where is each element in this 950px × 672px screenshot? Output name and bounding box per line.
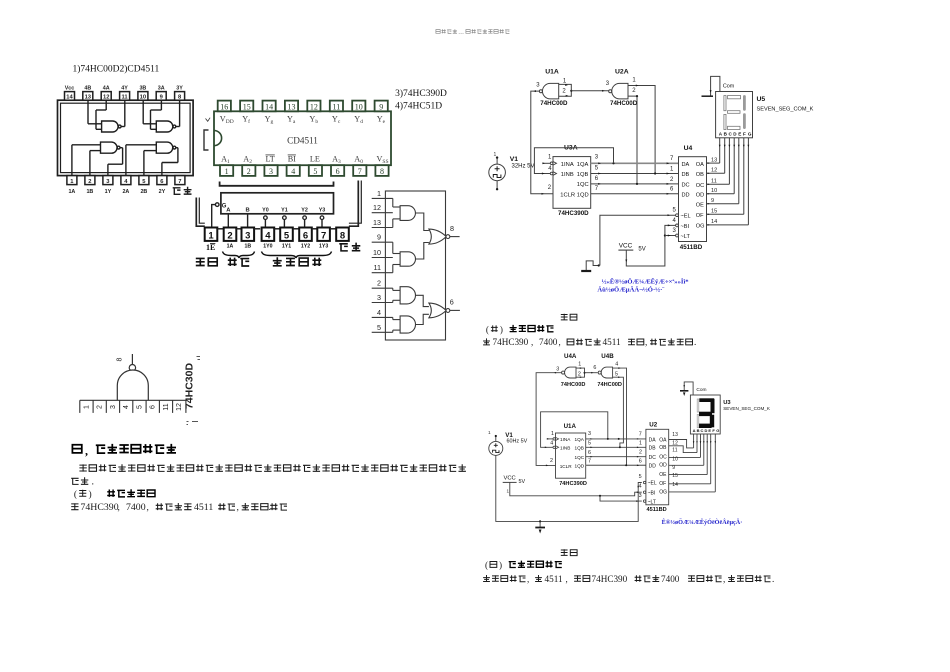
- svg-text:(: (: [485, 560, 488, 570]
- wire U2 OA pin13 to display A: [669, 440, 694, 448]
- decoder U2 4511BD figure2: [646, 429, 669, 505]
- wire U4B output to U4A inputs: [585, 372, 598, 374]
- svg-text:12: 12: [103, 95, 109, 101]
- wire U2 OB pin12 to display B: [669, 446, 697, 453]
- svg-text:1: 1: [563, 78, 567, 84]
- svg-text:12: 12: [672, 440, 678, 446]
- svg-text:U2A: U2A: [615, 68, 629, 75]
- U4 control pin ~BI bubble: [676, 224, 679, 227]
- wire U4 OE pin 9 to display: [707, 203, 739, 205]
- segment C (lit) figure2: [710, 415, 714, 428]
- pin 13 (4B) of 74HC00: [83, 92, 93, 101]
- pin 9 (3A) of 74HC00: [156, 92, 166, 101]
- svg-text:,: ,: [85, 444, 88, 458]
- clock source V1 (60Hz 5V) figure2: [489, 441, 503, 455]
- svg-text:3: 3: [588, 431, 591, 437]
- svg-text:14: 14: [66, 95, 73, 101]
- svg-text:15: 15: [672, 473, 678, 479]
- svg-text:1B: 1B: [86, 189, 93, 195]
- CD4511 pin 10 (Yd): [352, 101, 365, 112]
- svg-text:60Hz 5V: 60Hz 5V: [507, 439, 528, 445]
- svg-text:5: 5: [377, 323, 381, 332]
- svg-text:,: ,: [531, 337, 533, 347]
- wire U4 OB pin 12 to display: [707, 172, 725, 174]
- svg-text:E: E: [708, 428, 711, 433]
- svg-text:C: C: [701, 428, 704, 433]
- svg-text:74HC390: 74HC390: [81, 502, 119, 513]
- wire 1QD to U4 DD: [591, 193, 679, 195]
- svg-text:11: 11: [122, 95, 129, 101]
- wire 1QC to U4 DC: [591, 183, 679, 185]
- pin 10 (3B) of 74HC00: [138, 92, 148, 101]
- svg-text:5: 5: [588, 441, 591, 447]
- U1A pin 1 (1INA) figure2: [553, 438, 555, 440]
- body line 由74HC390、7400、数码管与4511 组成，电路如图一。: [71, 503, 78, 510]
- segment B (lit): [743, 95, 746, 111]
- NAND gate U1A 74HC00D: [542, 83, 558, 99]
- svg-text:Y0: Y0: [262, 208, 269, 214]
- wire U2 OF pin15 to display F: [669, 483, 711, 485]
- svg-text:3: 3: [673, 228, 677, 234]
- svg-text:74HC390D: 74HC390D: [558, 210, 589, 217]
- svg-text:2B: 2B: [140, 189, 147, 195]
- U4 control pin ~EL bubble: [676, 214, 679, 217]
- svg-text:5: 5: [284, 231, 290, 242]
- svg-text:3Y: 3Y: [176, 85, 183, 91]
- CD4511 pin 2 (A2): [242, 165, 255, 176]
- svg-text:~BI: ~BI: [648, 490, 656, 496]
- U4B pin5 wire to 1QB figure2: [613, 377, 624, 447]
- svg-text:3: 3: [639, 493, 642, 499]
- svg-text:2: 2: [97, 405, 104, 409]
- svg-text:1: 1: [639, 440, 642, 446]
- svg-text:(: (: [74, 489, 77, 500]
- svg-text:15: 15: [711, 209, 717, 215]
- CD4511 pin 1 (A1): [220, 165, 233, 176]
- pin 7 (GND) of 74HC00: [175, 176, 185, 185]
- svg-text:1INA: 1INA: [560, 437, 571, 442]
- demux pin 2: [224, 228, 237, 241]
- body line 由 74HC390、7400、数码管与 4511 组成，电路如图二。: [483, 338, 490, 345]
- svg-text:2: 2: [247, 167, 251, 176]
- svg-text:Vcc: Vcc: [65, 85, 75, 91]
- pin 5 (2B) of 74HC00: [139, 176, 149, 185]
- 74HC51 input pin 5: [372, 331, 393, 333]
- svg-text:1QD: 1QD: [577, 193, 589, 199]
- segment E figure2: [697, 415, 699, 428]
- svg-text:5: 5: [313, 167, 317, 176]
- pin 12 (4A) of 74HC00: [101, 92, 111, 101]
- CD4511 pin 14 (Yg): [263, 101, 276, 112]
- CD4511 pin 6 (A3): [331, 165, 344, 176]
- segment A: [728, 96, 741, 99]
- svg-text:DA: DA: [682, 162, 690, 168]
- display Com wire to ground figure2: [684, 382, 693, 395]
- svg-text:DC: DC: [649, 455, 657, 461]
- svg-text:OD: OD: [659, 463, 667, 469]
- svg-text:1: 1: [83, 405, 90, 409]
- U4A input stubs tied: [576, 368, 585, 377]
- svg-text:4511BD: 4511BD: [680, 244, 703, 251]
- segment D: [728, 126, 741, 129]
- U3A pin 4 (1INB): [550, 172, 553, 175]
- wire U2 OG pin14 to display G: [669, 491, 716, 493]
- 74HC51 OR gate output 8: [429, 229, 446, 244]
- 74HC51 logic diagram box: [385, 191, 445, 340]
- svg-text:BI: BI: [288, 155, 296, 164]
- svg-text:1CLR: 1CLR: [560, 464, 573, 469]
- svg-text:4A: 4A: [103, 85, 110, 91]
- svg-text:9: 9: [672, 465, 675, 471]
- pin 8 (3Y) of 74HC00: [175, 92, 185, 101]
- 74HC51 input pin 13: [372, 227, 393, 229]
- segment F: [724, 96, 726, 111]
- wire VCC to ~BI ~LT figure2: [510, 482, 642, 495]
- svg-text:7: 7: [321, 231, 326, 242]
- svg-text:3: 3: [245, 231, 250, 242]
- svg-text:4: 4: [265, 231, 271, 242]
- svg-text:7: 7: [358, 167, 362, 176]
- svg-text:8: 8: [380, 167, 384, 176]
- svg-text:1INB: 1INB: [560, 446, 570, 451]
- caption 图二: [561, 549, 568, 556]
- svg-text:1Y2: 1Y2: [301, 244, 310, 250]
- svg-text:8: 8: [117, 358, 124, 362]
- svg-text:OB: OB: [696, 172, 704, 178]
- svg-text:): ): [89, 489, 92, 500]
- svg-text:~BI: ~BI: [681, 224, 690, 230]
- svg-text:U1A: U1A: [564, 423, 577, 430]
- demux enable input G with bubble: [215, 203, 219, 207]
- svg-text:DB: DB: [682, 172, 690, 178]
- svg-text:6: 6: [303, 231, 308, 242]
- svg-text:1QC: 1QC: [577, 182, 589, 188]
- segment D (lit) figure2: [699, 424, 712, 428]
- svg-text:5: 5: [639, 474, 642, 480]
- svg-text:DA: DA: [649, 437, 657, 443]
- svg-text:VCC: VCC: [619, 242, 633, 249]
- svg-text:3: 3: [595, 155, 599, 161]
- svg-text:SEVEN_SEG_COM_K: SEVEN_SEG_COM_K: [723, 406, 771, 411]
- 74HC51 input pin 11: [372, 272, 393, 274]
- svg-text:1)74HC00D2)CD4511: 1)74HC00D2)CD4511: [73, 64, 160, 75]
- svg-text:9: 9: [379, 102, 383, 111]
- 74HC51 input pin 10: [372, 257, 393, 259]
- svg-text:Y1: Y1: [281, 208, 288, 214]
- svg-text:3: 3: [110, 405, 117, 409]
- svg-text:4B: 4B: [84, 85, 91, 91]
- CD4511 pin 11 (Yc): [330, 101, 343, 112]
- svg-text:10: 10: [140, 95, 146, 101]
- svg-text:74HC00D: 74HC00D: [561, 382, 586, 388]
- label 接地 for pin 8: [339, 244, 348, 251]
- gate 2 (NAND, pins 4,5 -> 6) inside 74HC00: [125, 145, 127, 176]
- NAND gate U2A 74HC00D: [612, 83, 628, 99]
- svg-text:1B: 1B: [244, 244, 251, 250]
- svg-text:7: 7: [588, 459, 591, 465]
- pin 4 (2A) of 74HC00: [121, 176, 131, 185]
- svg-text:,: ,: [237, 502, 239, 513]
- svg-text:,: ,: [147, 503, 149, 513]
- svg-text:12: 12: [310, 102, 318, 111]
- svg-text:,: ,: [566, 574, 568, 584]
- stray scan mark bracket: [204, 130, 209, 150]
- CD4511 notch: [214, 131, 222, 146]
- svg-text:SEVEN_SEG_COM_K: SEVEN_SEG_COM_K: [757, 107, 814, 113]
- 74HC30 pin row: [80, 399, 186, 401]
- svg-text:G: G: [716, 428, 719, 433]
- svg-text:A: A: [693, 428, 696, 433]
- ground symbol: [581, 270, 591, 272]
- svg-text:OF: OF: [696, 213, 704, 219]
- svg-text:1: 1: [208, 231, 214, 242]
- svg-text:4)74HC51D: 4)74HC51D: [395, 101, 442, 112]
- wire U2 OC pin11 to display C: [669, 456, 701, 458]
- svg-text:G: G: [748, 132, 752, 137]
- gate 3 (NAND, pins 10,9 -> 8) inside 74HC00: [142, 100, 144, 124]
- wire U4 OC pin 11 to display: [707, 183, 730, 185]
- svg-text:.: .: [694, 337, 696, 347]
- svg-text:3: 3: [536, 83, 540, 89]
- svg-text:U4B: U4B: [601, 353, 614, 360]
- CD4511 pin 5 (LE): [309, 165, 322, 176]
- scan dashes near 74HC30: [197, 357, 201, 360]
- feedback loop 1QA to 1INB: [534, 148, 613, 174]
- svg-text:1: 1: [507, 489, 510, 494]
- wire U2 OE pin9 to display E: [669, 474, 708, 476]
- demux DIP outer outline left: [196, 198, 205, 227]
- svg-text:10: 10: [373, 248, 381, 257]
- svg-text:5V: 5V: [519, 479, 526, 485]
- svg-text:~LT: ~LT: [648, 499, 656, 505]
- svg-text:6: 6: [150, 405, 157, 409]
- svg-text:4: 4: [550, 441, 553, 447]
- CD4511 pin 7 (A0): [353, 165, 366, 176]
- gate 1 (NAND, pins 1,2 -> 3) inside 74HC00: [71, 145, 73, 176]
- svg-text:1: 1: [632, 77, 636, 83]
- svg-text:6: 6: [336, 167, 340, 176]
- svg-text:1: 1: [551, 431, 554, 437]
- segment F figure2: [697, 399, 699, 412]
- segment B (lit) figure2: [711, 399, 715, 413]
- svg-text:OC: OC: [659, 455, 667, 461]
- CD4511 pin 16 (VDD): [218, 101, 231, 112]
- svg-text:7400: 7400: [539, 337, 558, 347]
- svg-text:11: 11: [333, 102, 341, 111]
- U4 control pin ~LT bubble: [676, 234, 679, 237]
- feedback loop 1QA to 1INB figure2: [541, 412, 608, 448]
- svg-text:4511: 4511: [603, 337, 621, 347]
- counter U1A 74HC390D figure2: [556, 433, 586, 478]
- svg-text:7: 7: [595, 186, 599, 192]
- wire 1QA to U2 DA figure2: [586, 438, 646, 440]
- svg-text:7: 7: [178, 179, 181, 185]
- wire VCC to ~BI and ~LT: [626, 225, 675, 266]
- svg-text:5V: 5V: [638, 246, 645, 252]
- svg-text:74HC390: 74HC390: [592, 574, 628, 584]
- svg-text:9: 9: [711, 198, 714, 204]
- label 选择: [228, 258, 237, 266]
- svg-text:6: 6: [450, 298, 454, 307]
- clock source V1 (32Hz 5V): [489, 164, 506, 181]
- svg-text:14: 14: [711, 219, 717, 225]
- 74HC51 input pin 2: [372, 287, 393, 289]
- segment E: [724, 114, 726, 129]
- svg-text:.: .: [269, 502, 271, 513]
- wire U4 OA pin 13 to display: [707, 162, 720, 164]
- svg-text:4: 4: [377, 308, 381, 317]
- seven segment display U3 SEVEN_SEG_COM_K figure2: [690, 395, 720, 434]
- svg-text:74HC00D: 74HC00D: [597, 382, 622, 388]
- demux pin 3: [242, 228, 255, 241]
- paragraph line 1 数字钟从原理上讲...: [79, 464, 86, 471]
- svg-text:DD: DD: [649, 464, 657, 470]
- svg-text:OG: OG: [696, 224, 705, 230]
- svg-text:2: 2: [88, 179, 91, 185]
- svg-text:15: 15: [243, 102, 251, 111]
- svg-text:3A: 3A: [158, 85, 165, 91]
- seven segment display U5 SEVEN_SEG_COM_K: [716, 92, 753, 138]
- svg-text:1: 1: [225, 167, 229, 176]
- wire U4A output to 1CLR figure2: [536, 373, 562, 466]
- svg-text:9: 9: [377, 233, 381, 242]
- pin 1 (1A) of 74HC00: [67, 176, 77, 185]
- svg-text:OG: OG: [659, 490, 667, 496]
- pin 3 (1Y) of 74HC00: [103, 176, 113, 185]
- svg-text:5: 5: [595, 166, 599, 172]
- U2 control pin ~LT bubble figure2: [643, 500, 645, 502]
- svg-text:1Y0: 1Y0: [263, 244, 272, 250]
- svg-text:2Y: 2Y: [159, 189, 166, 195]
- svg-text:): ): [499, 560, 502, 570]
- wire U1A output to 1CLR: [531, 91, 553, 194]
- counter U3A 74HC390D: [553, 157, 591, 209]
- caption 图一: [561, 314, 568, 321]
- svg-text:1QA: 1QA: [577, 162, 589, 168]
- svg-text:11: 11: [672, 448, 677, 454]
- svg-text:2: 2: [670, 177, 674, 183]
- U1A pin 4 (1INB) figure2: [553, 446, 555, 448]
- svg-text:3: 3: [606, 81, 610, 87]
- svg-text:2: 2: [639, 450, 642, 456]
- svg-text:13: 13: [85, 95, 92, 101]
- svg-text:10: 10: [711, 188, 717, 194]
- svg-text:OD: OD: [696, 193, 704, 199]
- wire U4 OD pin 10 to display: [707, 193, 735, 195]
- svg-text:U4A: U4A: [564, 353, 577, 360]
- svg-text:1INB: 1INB: [561, 172, 574, 178]
- svg-text:OB: OB: [659, 445, 667, 451]
- ground symbol figure2: [539, 520, 541, 522]
- CD4511 pin 9 (Ye): [375, 101, 388, 112]
- svg-text:2: 2: [632, 88, 636, 94]
- demux pin 7: [317, 228, 330, 241]
- svg-text:5: 5: [673, 208, 677, 214]
- svg-text:7: 7: [639, 431, 642, 437]
- svg-text:11: 11: [163, 403, 170, 410]
- svg-text:OE: OE: [659, 472, 667, 478]
- 74HC51 input pin 12: [372, 212, 393, 214]
- svg-text:½«Ê®½øÖÆ¼ÆÊýÆ÷×ª»»Ìì*: ½«Ê®½øÖÆ¼ÆÊýÆ÷×ª»»Ìì*: [602, 278, 690, 286]
- U3A pin 1 (1INA): [550, 162, 553, 165]
- svg-text:.: .: [92, 477, 95, 488]
- svg-text:1: 1: [670, 166, 674, 172]
- svg-text:VCC: VCC: [504, 475, 516, 481]
- svg-text:4: 4: [291, 167, 295, 176]
- segment C (lit): [743, 113, 746, 129]
- 74HC30 NAND bubble: [129, 365, 135, 371]
- svg-text:4511: 4511: [194, 502, 213, 513]
- wire ground rail to ~EL figure2: [637, 485, 639, 487]
- svg-text:OC: OC: [696, 183, 704, 189]
- svg-text:1Y3: 1Y3: [319, 244, 328, 250]
- svg-text:Áù½øÖÆµÄÁ¬½Ó·½·¨: Áù½øÖÆµÄÁ¬½Ó·½·¨: [597, 285, 665, 293]
- svg-text:7400: 7400: [126, 502, 146, 513]
- svg-text:1INA: 1INA: [561, 162, 574, 168]
- svg-text:U5: U5: [757, 96, 766, 103]
- svg-text:.: .: [772, 574, 774, 584]
- segment A (lit) figure2: [699, 398, 714, 402]
- NAND gate U4A 74HC00D figure2: [565, 367, 576, 378]
- svg-text:1QB: 1QB: [577, 172, 589, 178]
- svg-text:OF: OF: [659, 481, 666, 487]
- demux DIP outer outline right: [349, 181, 358, 227]
- svg-text:E: E: [738, 132, 741, 137]
- svg-text:OA: OA: [659, 437, 667, 443]
- svg-text:2A: 2A: [122, 189, 129, 195]
- V1 to ground rail wire: [496, 455, 642, 521]
- svg-text:): ): [500, 324, 503, 334]
- svg-text:B: B: [697, 428, 700, 433]
- svg-text:2: 2: [578, 371, 581, 377]
- 74HC51 input pin 4: [372, 316, 393, 318]
- svg-text:13: 13: [288, 102, 296, 111]
- CD4511 pin 3 (LT): [264, 165, 277, 176]
- svg-text:1CLR: 1CLR: [560, 193, 575, 199]
- svg-text:,: ,: [723, 574, 725, 584]
- svg-text:7400: 7400: [661, 574, 680, 584]
- pin 6 (2Y) of 74HC00: [157, 176, 167, 185]
- svg-text:16: 16: [220, 102, 228, 111]
- wire 1QC to U2 DC figure2: [586, 456, 646, 458]
- svg-text:1QA: 1QA: [575, 437, 585, 442]
- svg-text:6: 6: [593, 365, 596, 371]
- IC package CD4511 body: [214, 111, 391, 165]
- svg-text:V1: V1: [510, 156, 519, 163]
- wire 1QB to U4 DB: [591, 173, 679, 175]
- svg-text:4: 4: [673, 218, 677, 224]
- wire 1QB to U2 DB figure2: [586, 446, 646, 448]
- svg-text:CD4511: CD4511: [287, 136, 318, 146]
- svg-text:1: 1: [578, 361, 581, 367]
- svg-text:DB: DB: [649, 446, 657, 452]
- svg-text:74HC390D: 74HC390D: [559, 481, 587, 487]
- CD4511 pin 4 (BI): [287, 165, 300, 176]
- svg-text:2: 2: [562, 88, 566, 94]
- svg-text:2: 2: [227, 231, 232, 242]
- svg-text:4: 4: [123, 405, 130, 409]
- svg-text:11: 11: [711, 179, 717, 185]
- svg-text:13: 13: [711, 157, 717, 163]
- svg-text:1QD: 1QD: [575, 464, 585, 469]
- 74HC30 NAND gate dome: [117, 370, 148, 400]
- svg-text:6: 6: [670, 187, 674, 193]
- wire U2 OD pin10 to display D: [669, 464, 704, 466]
- svg-text:(: (: [486, 324, 489, 334]
- CD4511 pin 12 (Yb): [307, 101, 320, 112]
- svg-text:1QC: 1QC: [575, 455, 585, 460]
- svg-text:LT: LT: [266, 155, 275, 164]
